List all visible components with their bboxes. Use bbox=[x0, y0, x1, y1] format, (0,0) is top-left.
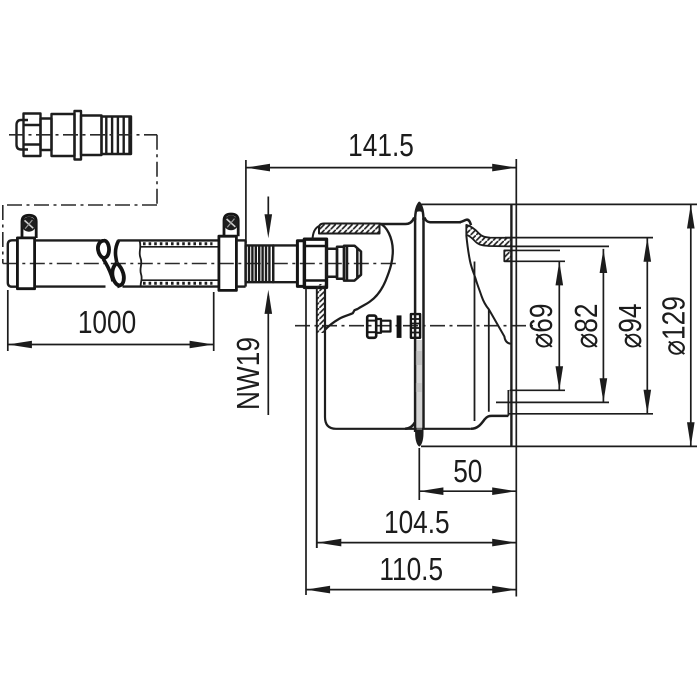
hose clamp right screw bbox=[224, 216, 239, 231]
pot mouth inner edge bbox=[507, 390, 509, 416]
hose clamp right bbox=[219, 214, 238, 290]
pot neck lip bbox=[460, 220, 472, 225]
hose stub over nipple bbox=[236, 240, 245, 286]
hose clamp left screw bbox=[22, 217, 37, 232]
front flange ring bbox=[381, 203, 431, 447]
lamp contact bar bbox=[397, 315, 402, 338]
dimension d129 bbox=[421, 204, 698, 446]
dimension 104.5 bbox=[317, 542, 516, 544]
dimension d69 bbox=[504, 261, 565, 390]
hose braid dots top bbox=[143, 242, 213, 245]
gland cap nut bbox=[344, 246, 361, 281]
ring bottom tip bbox=[415, 429, 423, 447]
neck thread band (hatched) bbox=[466, 225, 511, 247]
lamp rim edge bbox=[488, 310, 490, 412]
connector collar bbox=[41, 119, 52, 151]
dimension d94 bbox=[505, 238, 653, 414]
neck thread block (hatched) bbox=[504, 250, 511, 261]
svg-text:⌀94: ⌀94 bbox=[612, 304, 648, 349]
connector hose barb ribs bbox=[102, 117, 132, 155]
connector end cap bbox=[17, 120, 29, 150]
svg-text:⌀69: ⌀69 bbox=[523, 304, 559, 349]
gasket edge line bbox=[305, 288, 307, 595]
hose left section bbox=[35, 240, 106, 286]
ring clamp boss bbox=[411, 314, 420, 338]
svg-text:1000: 1000 bbox=[78, 304, 136, 340]
hose braid dots bottom bbox=[143, 282, 213, 285]
hose right section outline bbox=[118, 240, 220, 286]
ring watermark smudges bbox=[416, 351, 422, 365]
connector centerline bbox=[9, 134, 157, 136]
dimension d82 bbox=[496, 249, 609, 403]
lamp nipple plain section bbox=[273, 245, 297, 282]
svg-text:NW19: NW19 bbox=[230, 337, 266, 410]
niche flange plate wall strip (hatched) bbox=[317, 284, 471, 548]
pot top surface bbox=[430, 221, 462, 224]
hose centerline bbox=[3, 263, 400, 265]
lamp bolt collar bbox=[376, 319, 381, 333]
gland hex nut bbox=[304, 239, 326, 287]
pot bottom surface bbox=[471, 416, 509, 429]
svg-text:⌀82: ⌀82 bbox=[568, 304, 604, 349]
niche pot outline bbox=[405, 204, 511, 446]
connector flange bbox=[75, 111, 82, 160]
lamp hose nipple ribbed bbox=[246, 245, 298, 282]
connector rear body bbox=[81, 116, 102, 156]
gland ring bbox=[337, 247, 344, 279]
reflector front edge bbox=[474, 262, 476, 422]
pot bottom curl at ring bbox=[405, 423, 415, 429]
lamp bolt head bbox=[367, 316, 390, 338]
plug connector body (top-left detail) bbox=[17, 111, 132, 160]
svg-text:104.5: 104.5 bbox=[384, 504, 450, 540]
hose break squiggle left bbox=[98, 241, 109, 258]
lamp bolt shaft bbox=[381, 321, 391, 332]
svg-text:110.5: 110.5 bbox=[379, 551, 443, 587]
niche flange plate top section (hatched) bbox=[313, 224, 380, 240]
housing back outline (broken-out) bbox=[325, 224, 393, 331]
phantom link line (connector to hose end) bbox=[3, 135, 157, 264]
connector body bbox=[52, 114, 75, 156]
hose end cap bbox=[8, 240, 18, 286]
reflector broken-out edge bbox=[466, 235, 510, 344]
svg-text:⌀129: ⌀129 bbox=[656, 296, 692, 356]
lamp axis centerline bbox=[295, 325, 533, 327]
connector gland nut bbox=[24, 114, 41, 157]
pot right face bbox=[510, 204, 512, 446]
dimension 110.5 bbox=[306, 159, 516, 597]
dimension 141.5 bbox=[246, 160, 516, 243]
gland gasket washer bbox=[297, 241, 304, 287]
dimension 1000 bbox=[8, 290, 214, 351]
svg-text:141.5: 141.5 bbox=[348, 127, 414, 163]
hose clamp left bbox=[17, 215, 36, 288]
gland inner cylinder bbox=[327, 249, 338, 277]
hose break squiggle right bbox=[115, 241, 118, 263]
neck step lines bbox=[511, 245, 609, 247]
svg-text:50: 50 bbox=[453, 453, 482, 489]
dimension NW19 bbox=[267, 197, 269, 416]
ring interior shading bbox=[417, 340, 422, 430]
dimension 50 bbox=[419, 448, 516, 500]
